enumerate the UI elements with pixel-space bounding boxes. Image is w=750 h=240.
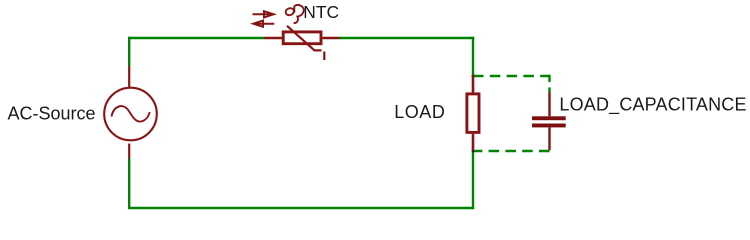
ac source V1	[104, 66, 157, 159]
NTC right lead	[323, 37, 340, 40]
NTC left lead	[265, 37, 283, 40]
wire dashed bottom to capacitor	[473, 150, 550, 152]
svg-text:LOAD_CAPACITANCE: LOAD_CAPACITANCE	[559, 95, 746, 116]
NTC theta symbol loop	[285, 7, 295, 16]
NTC body box	[283, 32, 321, 44]
wire bottom horizontal	[128, 207, 474, 209]
resistor LOAD	[467, 75, 479, 151]
LOAD top lead	[472, 75, 475, 93]
wire top-right horizontal	[340, 37, 475, 39]
wire dashed top to capacitor horizontal	[473, 75, 550, 77]
wire dashed top to capacitor vertical	[548, 75, 550, 93]
capacitor LOAD_CAPACITANCE	[548, 93, 550, 151]
svg-text:AC-Source: AC-Source	[8, 104, 96, 124]
NTC theta symbol hook	[294, 5, 304, 23]
node junction top	[472, 75, 475, 78]
capacitor top lead	[548, 93, 550, 117]
capacitor top plate	[532, 116, 566, 120]
svg-text:LOAD: LOAD	[394, 102, 445, 122]
NTC arrow lower (left)	[253, 21, 274, 27]
node junction bottom	[472, 149, 475, 152]
wire right vertical lower	[472, 150, 474, 209]
wire right vertical upper	[472, 37, 474, 76]
NTC arrow upper (right)	[253, 11, 274, 17]
capacitor bottom lead	[548, 127, 550, 150]
thermistor NTC	[253, 5, 340, 60]
wire left vertical upper	[128, 37, 130, 66]
NTC diagonal stroke	[287, 26, 322, 51]
NTC tick mark	[323, 52, 325, 61]
wire left vertical lower	[128, 159, 130, 209]
wire top-left horizontal	[128, 37, 265, 39]
LOAD body box	[467, 94, 479, 132]
LOAD bottom lead	[472, 134, 475, 151]
svg-text:NTC: NTC	[303, 2, 339, 22]
capacitor bottom plate	[532, 124, 566, 128]
